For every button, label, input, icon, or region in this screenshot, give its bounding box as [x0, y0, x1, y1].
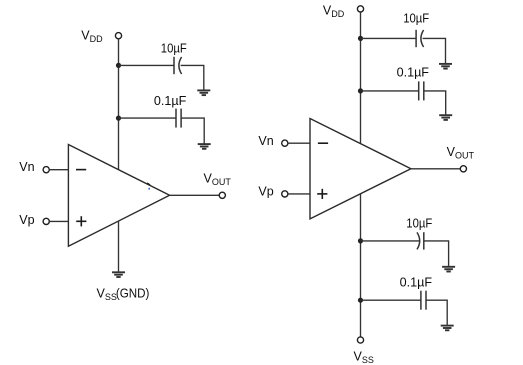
terminal VOUT (right) [460, 166, 466, 172]
junction: VSS rail to 0.1uF (right) [358, 298, 363, 303]
wire: 0.1uF top row right segment + drop (right) [424, 91, 446, 115]
junction: VSS rail to 10uF (right) [358, 238, 363, 243]
wire: 0.1uF row right segment + drop (left) [181, 118, 204, 144]
svg-text:0.1µF: 0.1µF [154, 94, 187, 108]
junction: VDD rail to 0.1uF (right) [358, 88, 363, 93]
ground: left op-amp VSS [112, 272, 125, 277]
svg-text:OUT: OUT [455, 150, 475, 160]
capacitor 10uF bottom (right, polarized, curved plate left) [417, 232, 424, 249]
capacitor 10uF (left, polarized) [174, 57, 182, 74]
wire: output (left) [170, 194, 220, 196]
wire: 10uF bottom row left segment (right) [361, 240, 420, 242]
terminal VSS (right) [357, 337, 363, 343]
svg-text:OUT: OUT [212, 177, 232, 187]
op-amp (right) non-inverting input marker + [317, 189, 327, 199]
wire: 0.1uF bottom row right segment + drop (right) [426, 300, 447, 325]
wire: 10uF row left segment (left) [119, 64, 175, 66]
op-amp (left) non-inverting input marker + [76, 216, 86, 226]
wire: 0.1uF top row left segment (right) [361, 90, 419, 92]
op-amp (left) triangle [68, 145, 169, 247]
wire: Vp stub (left) [49, 220, 68, 222]
op-amp (right) inverting input marker - [318, 142, 328, 144]
net label VOUT (right) [447, 145, 475, 161]
capacitor 0.1uF bottom (right) [421, 291, 426, 310]
ground: right bottom 10uF [442, 267, 455, 272]
junction: VDD rail to 10uF (left) [116, 63, 121, 68]
wire: Vn stub (right) [288, 142, 310, 144]
svg-text:Vp: Vp [19, 213, 34, 227]
svg-text:Vn: Vn [258, 134, 273, 148]
svg-text:(GND): (GND) [116, 286, 149, 300]
op-amp (left) inverting input marker - [76, 169, 86, 171]
wire: 10uF row right segment + drop (left) [181, 65, 204, 90]
wire: Vn stub (left) [49, 169, 68, 171]
wire: VSS rail vertical (right) [360, 194, 362, 337]
stray mark (artifact in source, near left apex) [147, 183, 150, 185]
wire: Vp stub (right) [288, 193, 310, 195]
svg-text:Vn: Vn [19, 160, 34, 174]
svg-text:10µF: 10µF [406, 217, 432, 231]
terminal Vn (right) [282, 140, 288, 146]
wire: 10uF top row right segment + drop (right) [423, 38, 446, 63]
capacitor 10uF top (right, polarized) [416, 30, 424, 47]
ground: right bottom 0.1uF [441, 326, 454, 331]
svg-text:0.1µF: 0.1µF [397, 65, 430, 79]
wire: VDD rail vertical (left) [118, 39, 120, 170]
wire: 0.1uF row left segment (left) [119, 117, 177, 119]
ground: right top 10uF [439, 64, 452, 69]
net label VDD (right) [323, 4, 345, 20]
net label VDD (left) [81, 28, 103, 44]
svg-text:DD: DD [90, 34, 103, 44]
svg-text:SS: SS [362, 355, 374, 365]
terminal Vp (left) [43, 218, 49, 224]
svg-text:10µF: 10µF [161, 41, 187, 55]
ground: right top 0.1uF [439, 115, 452, 120]
terminal VOUT (left) [219, 192, 225, 198]
wire: VSS drop from op-amp (left) [118, 221, 120, 272]
wire: 10uF top row left segment (right) [361, 37, 417, 39]
svg-text:Vp: Vp [258, 185, 273, 199]
ground: left 10uF [197, 90, 210, 95]
wire: 0.1uF bottom row left segment (right) [361, 299, 421, 301]
terminal Vp (right) [282, 191, 288, 197]
svg-text:10µF: 10µF [403, 12, 429, 26]
terminal VDD (left) [115, 33, 121, 39]
net label VSS(GND) (left) [97, 286, 150, 302]
terminal VDD (right) [357, 6, 363, 12]
svg-text:0.1µF: 0.1µF [400, 275, 433, 289]
wire: VDD rail vertical (right) [360, 12, 362, 144]
wire: output (right) [411, 168, 460, 170]
capacitor 0.1uF top (right) [419, 81, 424, 100]
op-amp (right) triangle [310, 119, 411, 219]
junction: VDD rail to 10uF (right) [358, 36, 363, 41]
net label VSS (right) [354, 349, 374, 365]
junction: VDD rail to 0.1uF (left) [116, 116, 121, 121]
capacitor 0.1uF (left) [176, 109, 181, 128]
terminal Vn (left) [43, 167, 49, 173]
ground: left 0.1uF [198, 144, 211, 149]
wire: 10uF bottom row right segment + drop (right) [424, 241, 449, 267]
svg-text:DD: DD [331, 9, 344, 19]
stray mark (blue speck artifact in source) [148, 188, 150, 190]
net label VOUT (left) [204, 171, 232, 187]
